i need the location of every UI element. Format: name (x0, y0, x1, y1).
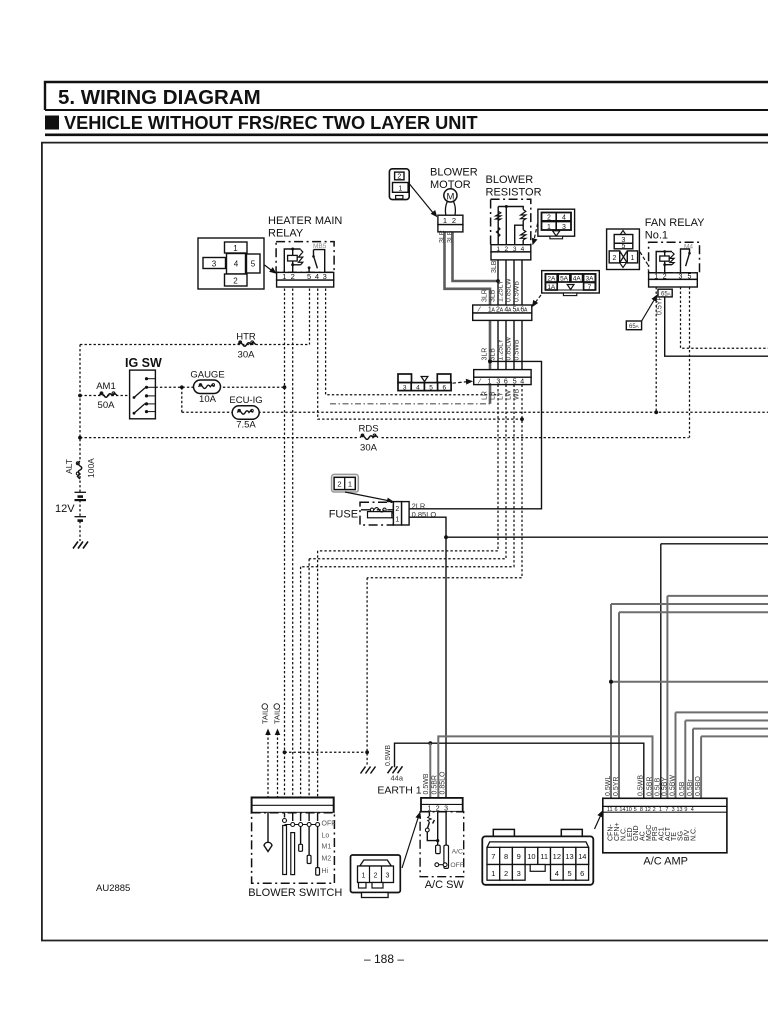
svg-text:30A: 30A (360, 443, 378, 454)
svg-text:6: 6 (580, 869, 584, 878)
resistor pin strip (491, 245, 531, 252)
fuse ALT 100A (vertical) (78, 461, 82, 479)
svg-text:6: 6 (615, 807, 618, 813)
svg-text:0.5WB: 0.5WB (514, 339, 521, 360)
node: battery junction y=437.6 (78, 436, 82, 440)
wire: ECU-IG branch riser (181, 387, 183, 412)
arrow A/C SW connector to strip (402, 815, 419, 868)
svg-text:LB: LB (490, 391, 497, 400)
svg-text:HTR: HTR (236, 332, 256, 343)
svg-text:8: 8 (504, 852, 508, 861)
relay pin strip (277, 272, 334, 280)
svg-text:0.85LO: 0.85LO (440, 771, 447, 795)
svg-text:LY: LY (498, 392, 505, 400)
connector icon (lower junction strip) (398, 374, 451, 391)
svg-text:A/C: A/C (452, 848, 463, 855)
wire: heater relay pin4 riser and link to WB y=419.1 (318, 289, 522, 420)
svg-text:12V: 12V (55, 503, 75, 515)
fuse HTR 30A (238, 342, 256, 346)
wire: blower switch pin1 to TAIL (267, 733, 269, 798)
svg-text:3LR: 3LR (482, 289, 489, 302)
svg-text:11: 11 (540, 852, 548, 861)
svg-text:0.5WB: 0.5WB (638, 775, 645, 796)
wire: fan relay pin1 to ECU-IG line (655, 287, 657, 412)
connector icon (A/C SW 1 2 3) (351, 855, 401, 898)
svg-text:3LR: 3LR (482, 348, 489, 361)
svg-text:13: 13 (565, 852, 573, 861)
svg-text:A/C SW: A/C SW (425, 879, 465, 891)
svg-text:2: 2 (612, 255, 616, 262)
wire 0.5BR from A/C SW pin2 to AMP (438, 736, 652, 798)
svg-text:RDS: RDS (358, 424, 378, 435)
svg-text:3: 3 (672, 807, 675, 813)
svg-text:0.5BO: 0.5BO (695, 776, 702, 796)
svg-text:5. WIRING DIAGRAM: 5. WIRING DIAGRAM (58, 86, 261, 109)
svg-text:4: 4 (562, 215, 566, 222)
svg-text:4: 4 (234, 260, 239, 269)
svg-text:14: 14 (619, 807, 625, 813)
svg-text:3LB: 3LB (490, 348, 497, 361)
svg-text:4A: 4A (573, 276, 582, 283)
svg-text:4: 4 (520, 378, 524, 385)
wire 0.5WL (611, 604, 768, 798)
ground (battery) (73, 542, 88, 549)
svg-text:3: 3 (517, 869, 521, 878)
svg-text:3LB: 3LB (447, 230, 454, 243)
svg-text:2: 2 (233, 277, 238, 286)
wire LB x=498 (solid above, dotted below) (497, 260, 499, 385)
wire: HTR feed line y=344.5 (80, 344, 310, 346)
svg-text:1: 1 (233, 244, 238, 253)
arrow junction connector to strip (535, 295, 542, 304)
svg-text:0.5BR: 0.5BR (431, 775, 438, 794)
wire: AM1 line to IG SW (80, 395, 130, 397)
svg-text:1: 1 (398, 186, 402, 193)
wire 0.5BW (676, 712, 768, 798)
wire: heater relay pin2 long vertical to blower switch (292, 289, 294, 798)
arrow resistor connector to pin strip (534, 224, 538, 241)
svg-text:0.5WB: 0.5WB (423, 773, 430, 794)
wire LW x=514 (513, 260, 515, 385)
svg-text:7: 7 (588, 284, 592, 291)
wire 0.5BO (701, 736, 768, 798)
svg-text:6: 6 (442, 384, 446, 391)
heading underline (45, 134, 768, 137)
svg-text:WB: WB (514, 388, 521, 400)
svg-text:2: 2 (397, 174, 401, 181)
svg-text:10: 10 (527, 852, 535, 861)
wire: heater relay pin1 long vertical to blower switch (284, 289, 286, 798)
fan relay pin strip (649, 273, 698, 280)
svg-text:OFF: OFF (450, 862, 464, 869)
svg-text:ALT: ALT (64, 459, 74, 474)
wire 0.5YR (619, 612, 768, 798)
title box (45, 82, 768, 110)
svg-text:RESISTOR: RESISTOR (486, 187, 542, 199)
svg-text:100A: 100A (86, 458, 96, 478)
svg-text:7: 7 (665, 807, 668, 813)
svg-text:5: 5 (251, 260, 256, 269)
junction strip upper (1A 2A 4A 5A 6A) (473, 305, 532, 320)
svg-text:9: 9 (517, 852, 521, 861)
fuse GAUGE 10A (194, 380, 221, 394)
arrow 65A callout (642, 299, 655, 322)
switch BLOWER SWITCH (252, 798, 336, 884)
svg-text:5: 5 (307, 272, 311, 281)
arrow fan connector to relay (640, 252, 651, 270)
blower motor symbol M (444, 189, 457, 202)
wire 0.5LB (dark) (661, 544, 768, 799)
svg-text:AM1: AM1 (96, 381, 116, 392)
svg-text:VEHICLE WITHOUT FRS/REC TWO LA: VEHICLE WITHOUT FRS/REC TWO LAYER UNIT (64, 113, 478, 133)
svg-text:2: 2 (291, 272, 295, 281)
svg-text:No.1: No.1 (645, 230, 668, 242)
wire: A/C SW pin1 riser 0.5WB (429, 743, 431, 798)
svg-text:Lo: Lo (322, 833, 330, 840)
wire: heater relay pin5 riser (309, 289, 311, 345)
svg-text:3LR: 3LR (439, 230, 446, 243)
svg-text:7: 7 (491, 852, 495, 861)
svg-text:M2: M2 (322, 856, 332, 863)
svg-text:5: 5 (688, 274, 692, 281)
svg-text:OFF: OFF (322, 820, 336, 827)
svg-text:4: 4 (315, 272, 319, 281)
wire 2LR branch from LR to fuse (410, 361, 542, 508)
svg-text:BLOWER SWITCH: BLOWER SWITCH (248, 887, 342, 899)
wire: main dashed bus y=437.6 (battery to fan relay pin5) (80, 437, 689, 439)
svg-text:1: 1 (395, 517, 399, 524)
svg-text:0.5YR: 0.5YR (613, 777, 620, 796)
connector icon (A/C AMP 14-pin) (482, 829, 593, 884)
svg-text:1: 1 (348, 480, 352, 489)
svg-text:13: 13 (676, 807, 682, 813)
svg-text:EARTH 1: EARTH 1 (377, 785, 421, 797)
svg-text:30A: 30A (238, 350, 256, 361)
svg-text:0.5BW: 0.5BW (669, 775, 676, 796)
svg-text:2A: 2A (547, 276, 556, 283)
wire: battery main vertical x=80 (79, 345, 81, 462)
svg-text:7.5A: 7.5A (236, 420, 256, 431)
svg-text:2: 2 (547, 215, 551, 222)
heading square bullet (45, 116, 59, 130)
wire 0.5WL branch y=681.8 (611, 681, 768, 683)
svg-text:3LB: 3LB (491, 260, 498, 273)
wire blower switch pin5 riser (300, 567, 302, 798)
svg-text:M1: M1 (322, 843, 332, 850)
ground (blower switch) (361, 767, 376, 774)
svg-text:5: 5 (634, 807, 637, 813)
svg-text:RELAY: RELAY (268, 228, 304, 240)
svg-text:2: 2 (395, 506, 399, 513)
svg-text:12: 12 (553, 852, 561, 861)
wire: fan relay pin5 riser (joins battery bus) (689, 287, 691, 438)
svg-text:10A: 10A (199, 394, 217, 405)
svg-text:3: 3 (323, 272, 327, 281)
svg-text:0.5B: 0.5B (679, 781, 686, 796)
connector icon (blower resistor) (538, 209, 575, 239)
svg-text:9: 9 (684, 807, 687, 813)
wire blower switch pin7 riser (317, 551, 319, 798)
svg-text:1: 1 (659, 807, 662, 813)
svg-text:3: 3 (212, 260, 217, 269)
svg-text:1: 1 (443, 216, 447, 225)
wire: blower switch pin2 to TAIL (277, 733, 279, 798)
svg-text:3A: 3A (585, 276, 594, 283)
wire: ECU-IG line y=412.3 to right edge (182, 411, 768, 413)
svg-text:0.85LW: 0.85LW (506, 278, 513, 302)
svg-text:0.5BR: 0.5BR (646, 777, 653, 796)
svg-text:0.5Br: 0.5Br (687, 779, 694, 796)
svg-text:4: 4 (416, 384, 420, 391)
svg-text:4: 4 (555, 869, 559, 878)
svg-text:AU2885: AU2885 (96, 883, 130, 894)
connector icon (blower motor) (389, 169, 409, 200)
svg-text:3LB: 3LB (490, 289, 497, 302)
svg-text:3: 3 (386, 873, 390, 880)
fuse RDS 30A (357, 431, 381, 443)
svg-text:0.85LW: 0.85LW (506, 337, 513, 361)
svg-text:5: 5 (622, 243, 626, 250)
wire 0.5B (685, 721, 768, 799)
wire 3LR gray from blower motor pin1 down to LR (445, 231, 491, 404)
svg-text:0.5WB: 0.5WB (385, 745, 392, 766)
wire: IG SW to GAUGE y=387.3 (155, 386, 284, 388)
fuse body (360, 502, 409, 525)
svg-text:5: 5 (567, 869, 571, 878)
wire blower switch pin6 riser (308, 559, 310, 798)
relay FAN RELAY No.1 body (649, 242, 700, 287)
connector icon (junction block upper) (542, 271, 600, 296)
wire 0.5WB (earth line to AMP) (395, 743, 644, 798)
svg-text:A/C AMP: A/C AMP (643, 856, 688, 868)
svg-text:GAUGE: GAUGE (190, 370, 224, 381)
arrow fuse connector to fuse (345, 492, 390, 501)
svg-text:44a: 44a (391, 774, 404, 783)
wire: fan relay pin3 to right edge (681, 287, 768, 348)
65A tag under fan relay (658, 289, 672, 297)
connector icon (fuse 2|1) (332, 474, 359, 492)
wire ground riser x=367.1 (366, 578, 368, 766)
svg-text:BLOWER: BLOWER (486, 174, 534, 186)
svg-text:8: 8 (640, 807, 643, 813)
svg-text:1.25LY: 1.25LY (498, 280, 505, 302)
fuse pin strip (393, 502, 401, 525)
svg-text:0.5WL: 0.5WL (605, 776, 612, 796)
svg-text:0.5WB: 0.5WB (514, 281, 521, 302)
wire WB x=522 (521, 260, 523, 385)
svg-text:4: 4 (691, 807, 694, 813)
svg-text:12: 12 (645, 807, 651, 813)
svg-text:11: 11 (607, 807, 613, 813)
svg-text:6: 6 (504, 378, 508, 385)
svg-text:ECU-IG: ECU-IG (229, 395, 262, 406)
amplifier A/C AMP (603, 798, 727, 853)
svg-text:TAIL: TAIL (261, 709, 270, 724)
wire branch blower pin3 to ground riser y=752.3 (285, 751, 368, 753)
svg-text:– 188 –: – 188 – (364, 952, 404, 966)
svg-text:LW: LW (506, 390, 513, 400)
svg-text:1: 1 (654, 274, 658, 281)
wire: solid bus y=537 to right edge (446, 536, 768, 538)
wire LY x=506 (505, 260, 507, 385)
svg-text:2: 2 (337, 480, 341, 489)
svg-text:IG SW: IG SW (125, 356, 162, 370)
svg-text:N.C.: N.C. (690, 827, 697, 841)
relay HEATER MAIN RELAY body (276, 242, 334, 287)
fuse ECU-IG 7.5A (232, 406, 259, 420)
svg-text:50A: 50A (98, 400, 116, 411)
svg-text:10: 10 (626, 807, 632, 813)
svg-text:5: 5 (429, 384, 433, 391)
wire: heater relay pin3 riser and link to LB y=394.8 (326, 289, 498, 395)
svg-text:1: 1 (630, 255, 634, 262)
svg-text:0.5YR: 0.5YR (657, 296, 664, 315)
svg-text:0.5BY: 0.5BY (661, 777, 668, 796)
svg-text:3: 3 (679, 274, 683, 281)
svg-text:2: 2 (374, 873, 378, 880)
fuse AM1 50A (99, 393, 117, 397)
svg-text:FUSE: FUSE (329, 509, 358, 521)
svg-text:BLOWER: BLOWER (430, 167, 478, 179)
svg-text:1.25LY: 1.25LY (498, 339, 505, 361)
connector icon (fan relay) (607, 229, 640, 270)
svg-text:TAIL: TAIL (273, 709, 282, 724)
65A callout box (626, 321, 641, 330)
wire 3LB from blower motor pin2 joining resistor pin1 wire (453, 231, 499, 281)
battery 12V (75, 491, 87, 493)
switch A/C SW (420, 798, 464, 877)
svg-text:5A: 5A (560, 276, 569, 283)
resistor body (491, 199, 531, 260)
wire: fan relay pin2 solid to right edge (665, 297, 768, 356)
wire: link to LR y=403.8 (330, 403, 490, 405)
arrow 14-pin connector to A/C AMP (595, 814, 602, 830)
svg-text:Hi: Hi (322, 868, 329, 875)
svg-text:LR: LR (482, 391, 489, 400)
svg-text:1: 1 (547, 224, 551, 231)
svg-text:FAN RELAY: FAN RELAY (645, 217, 705, 229)
svg-text:3: 3 (403, 384, 407, 391)
svg-text:14: 14 (578, 852, 586, 861)
arrow connector to blower motor connector (410, 184, 435, 214)
svg-text:3: 3 (562, 224, 566, 231)
diagram frame border (42, 143, 768, 941)
svg-text:1: 1 (362, 873, 366, 880)
connector icon (heater main relay) (198, 238, 264, 289)
svg-text:3: 3 (496, 378, 500, 385)
svg-text:2: 2 (452, 216, 456, 225)
svg-text:1: 1 (282, 272, 286, 281)
svg-text:2: 2 (653, 807, 656, 813)
svg-text:2: 2 (504, 869, 508, 878)
arrow to lower junction strip (453, 382, 469, 384)
wire 0.5Br (693, 729, 768, 799)
wire 0.5BY (667, 596, 768, 798)
ground EARTH 1 (388, 766, 403, 773)
svg-text:HEATER MAIN: HEATER MAIN (268, 215, 342, 227)
junction strip lower (1 3 6 5 4) (474, 370, 531, 386)
blower motor connector strip (438, 215, 463, 224)
svg-text:1: 1 (491, 869, 495, 878)
wire: fuse output 0.85LO (409, 517, 446, 798)
svg-text:M: M (446, 191, 454, 202)
svg-text:5: 5 (513, 378, 517, 385)
arrow connector to heater relay (265, 265, 274, 272)
svg-text:1: 1 (487, 378, 491, 385)
svg-text:1A: 1A (547, 284, 556, 291)
svg-text:2: 2 (663, 274, 667, 281)
